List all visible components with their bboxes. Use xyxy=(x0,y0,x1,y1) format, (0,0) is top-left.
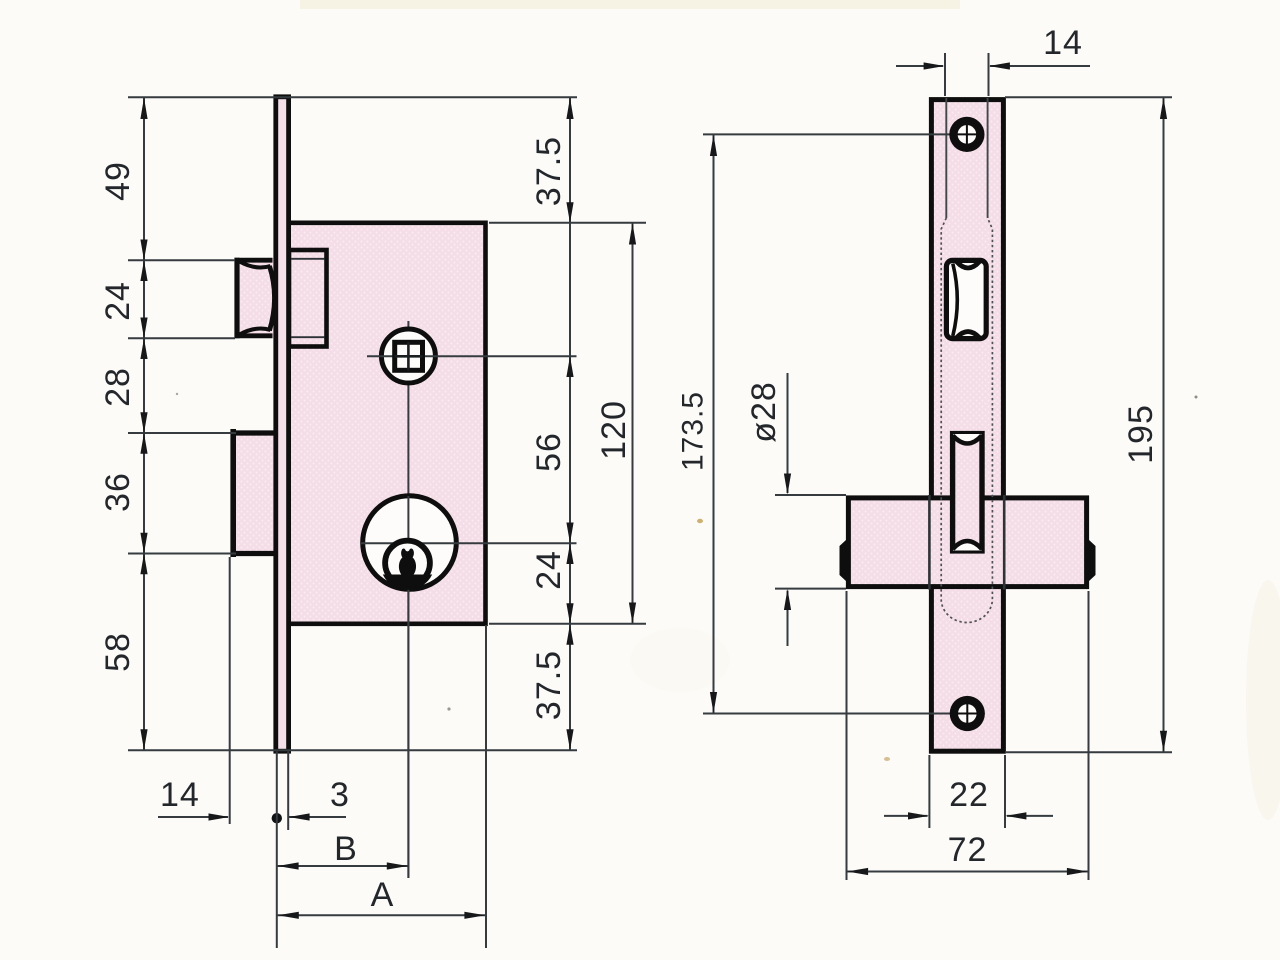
deadbolt left edge xyxy=(230,429,236,557)
dim o28 arrows xyxy=(784,474,791,611)
dim 72 ext left xyxy=(846,591,848,880)
speck 2 xyxy=(697,519,703,523)
deadbolt opening top lens xyxy=(953,434,982,441)
svg-text:36: 36 xyxy=(99,472,137,512)
dim A line xyxy=(277,914,486,916)
dim 22 arrows xyxy=(908,812,1026,819)
chain x632 arrows xyxy=(629,223,636,624)
dim B line xyxy=(277,865,408,867)
deadbolt fill xyxy=(231,431,276,556)
ext line y624 body bottom xyxy=(489,623,646,625)
cylinder plug ring xyxy=(385,541,430,586)
dim 14 line right xyxy=(990,65,1090,67)
dim o28 stub top xyxy=(775,494,846,496)
ext line y338 latch bottom xyxy=(128,337,235,339)
svg-text:28: 28 xyxy=(99,367,137,407)
scan stain right mid xyxy=(1246,580,1280,820)
ext vline body right xyxy=(485,625,487,948)
dim 3 line xyxy=(289,816,346,818)
ext line 195 bottom xyxy=(1005,751,1172,753)
dim o28 stub bottom xyxy=(775,588,846,590)
svg-text:3: 3 xyxy=(330,776,350,814)
crossbar right tab xyxy=(1089,540,1096,582)
deadbolt opening xyxy=(953,434,982,551)
faceplate side strip xyxy=(276,97,289,751)
spindle vertical centreline xyxy=(407,321,409,878)
svg-text:72: 72 xyxy=(948,831,988,869)
svg-text:120: 120 xyxy=(595,400,633,460)
dim 14 ext line right xyxy=(988,53,990,96)
top screw xyxy=(949,117,984,152)
dim 14 arrow xyxy=(209,813,230,820)
dim 14 line left xyxy=(896,65,943,67)
latch bolt bottom edge xyxy=(235,333,273,338)
scan stain top band xyxy=(300,0,960,9)
ext line y750 xyxy=(128,749,577,751)
chain 173.5 arrows xyxy=(710,135,717,714)
chain 195 line xyxy=(1163,97,1165,752)
dim o28 line top xyxy=(787,373,789,493)
svg-text:A: A xyxy=(371,876,395,914)
latch bolt left edge xyxy=(234,258,239,338)
svg-text:14: 14 xyxy=(1043,24,1083,62)
ext vline faceplate back xyxy=(287,752,289,831)
channel dotted outline xyxy=(941,218,992,623)
cylinder horizontal centreline xyxy=(361,542,577,544)
dim 14 ext line left xyxy=(944,53,946,96)
svg-text:ø28: ø28 xyxy=(745,381,783,443)
dim A arrows xyxy=(278,912,486,919)
latch opening top arc xyxy=(957,262,980,269)
deadbolt opening bottom arc xyxy=(953,541,982,549)
svg-text:173.5: 173.5 xyxy=(677,391,710,471)
crossbar left tab xyxy=(840,540,847,582)
deadbolt top edge xyxy=(231,430,277,435)
dim 22 ext left xyxy=(928,755,930,828)
latch bolt top concave arc xyxy=(240,262,271,268)
cylinder vertical centreline lower xyxy=(407,496,409,878)
svg-text:22: 22 xyxy=(949,776,989,814)
cylinder crossbar xyxy=(848,498,1086,587)
svg-text:14: 14 xyxy=(160,776,200,814)
faceplate front xyxy=(931,100,1003,752)
datum dot xyxy=(272,813,282,823)
deadbolt opening top arc xyxy=(953,436,982,444)
dim 22 line left xyxy=(884,815,928,817)
chain line x632 xyxy=(632,223,634,624)
svg-text:37.5: 37.5 xyxy=(530,136,568,206)
faceplate edge over crossbar left xyxy=(928,495,931,590)
spindle square cross v xyxy=(407,342,410,371)
dim 72 arrows xyxy=(847,868,1088,875)
lock body xyxy=(289,223,486,624)
svg-text:58: 58 xyxy=(99,632,137,672)
svg-text:56: 56 xyxy=(530,432,568,472)
faceplate edge over crossbar right xyxy=(1003,495,1006,590)
dim 14 line xyxy=(158,816,228,818)
svg-text:195: 195 xyxy=(1122,404,1160,464)
latch opening xyxy=(946,260,986,338)
chain line x144 xyxy=(143,97,145,750)
speck 1 xyxy=(447,707,450,710)
latch opening bottom arc xyxy=(957,332,980,338)
top screw extension line xyxy=(703,133,952,135)
dim 3 arrow xyxy=(289,813,310,820)
dim 14 arrows xyxy=(924,62,1010,69)
svg-text:B: B xyxy=(334,830,358,868)
dim o28 line bottom xyxy=(787,591,789,646)
dim 72 line xyxy=(847,871,1089,873)
dim 22 ext right xyxy=(1004,755,1006,828)
latch bolt top edge xyxy=(235,258,273,263)
ext line y553 deadbolt bottom xyxy=(128,553,236,555)
latch bolt head fill xyxy=(235,258,276,338)
channel solid line right xyxy=(987,98,989,218)
dim B arrows xyxy=(278,862,408,869)
scan stain faint centre xyxy=(630,628,730,692)
ext vline faceplate front xyxy=(276,752,278,949)
svg-text:37.5: 37.5 xyxy=(530,650,568,720)
latch bolt bottom concave arc xyxy=(240,329,271,335)
spindle square hole xyxy=(395,342,423,370)
latch opening left bevel curve xyxy=(953,264,958,337)
deadbolt opening bottom lens xyxy=(953,544,982,551)
ext line y433 deadbolt top xyxy=(128,432,236,434)
chain x570 arrows xyxy=(566,98,573,751)
channel solid line left xyxy=(945,98,947,218)
bottom screw extension line xyxy=(703,713,952,715)
latch housing inner line top xyxy=(290,258,325,260)
chain line x570 xyxy=(569,97,571,750)
latch housing inner line bottom xyxy=(290,336,325,338)
latch housing xyxy=(289,250,327,347)
ext line y260 latch top xyxy=(128,259,235,261)
chain 173.5 line xyxy=(713,134,715,713)
spindle horizontal centreline xyxy=(367,355,577,357)
chain 195 arrows xyxy=(1160,98,1167,752)
dim 72 ext right xyxy=(1088,591,1090,880)
chain x144 arrows xyxy=(140,98,147,751)
spindle square cross h xyxy=(395,355,423,358)
ext line y223 body top xyxy=(489,222,646,224)
ext line 195 top xyxy=(1005,96,1172,98)
dim 22 line right xyxy=(1007,815,1053,817)
bottom screw xyxy=(950,696,985,731)
speck 5 xyxy=(884,757,890,761)
deadbolt bottom edge xyxy=(231,551,277,556)
cylinder bottom crescent xyxy=(383,575,432,590)
svg-text:24: 24 xyxy=(99,281,137,321)
speck 3 xyxy=(1195,396,1198,399)
spindle circle xyxy=(381,329,435,383)
latch bolt bevel arc xyxy=(270,266,275,331)
svg-text:24: 24 xyxy=(530,550,568,590)
ext line y97 xyxy=(128,96,577,98)
cylinder outer circle xyxy=(363,496,457,590)
svg-text:49: 49 xyxy=(99,161,137,201)
ext vline deadbolt face xyxy=(229,557,231,824)
speck 4 xyxy=(176,393,178,395)
key silhouette xyxy=(399,549,416,578)
